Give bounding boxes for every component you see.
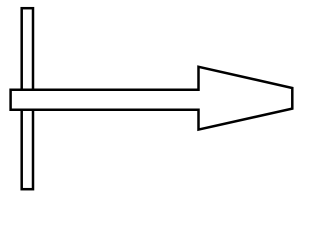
vertical bar xyxy=(22,8,33,189)
arrow (shaft + truncated head) xyxy=(11,67,293,130)
